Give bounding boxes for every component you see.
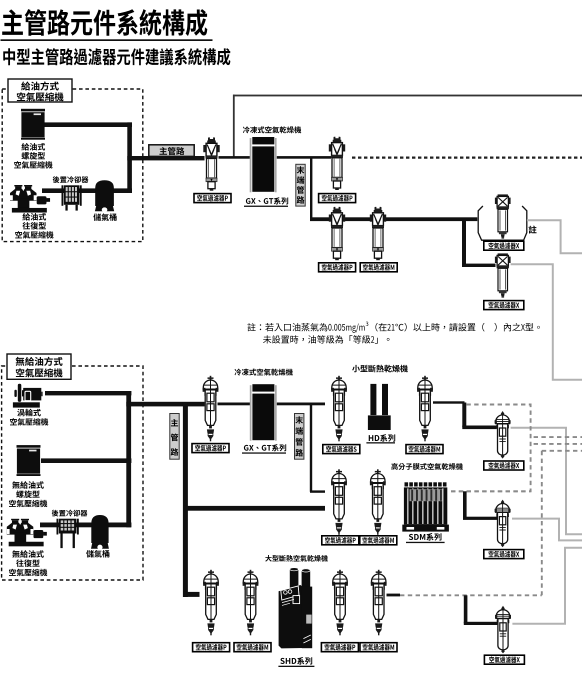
- stub from riser toward row2 filters: [310, 490, 325, 492]
- label 空氣過濾器P (top1): [194, 194, 231, 203]
- gray stub from filter X1 to right edge: [511, 428, 582, 534]
- air filter M row3 left: [243, 570, 259, 636]
- wire: junction vertical (top): [127, 122, 132, 193]
- label 高分子膜式空氣乾燥機: [391, 463, 462, 470]
- label box 給油方式空氣壓縮機: [8, 79, 72, 102]
- label HD系列: [369, 434, 395, 442]
- label box 無給油方式空氣壓縮機: [7, 354, 71, 379]
- riser to terminal line (top): [310, 157, 312, 219]
- air tank 儲氣桶 (bottom): [91, 515, 109, 550]
- air filter M row2 (bottom): [370, 469, 386, 535]
- gray stub from bracket to right edge (top): [527, 220, 582, 253]
- dashed continuation of main line (top): [352, 157, 582, 159]
- label GX、GT系列 (top): [246, 197, 288, 204]
- riser to row2 (bottom): [310, 404, 312, 492]
- wire: dryer to filter P2 (top): [277, 156, 331, 159]
- aftercooler label 後置冷卻器 (top): [53, 176, 89, 183]
- aftercooler (bottom): [57, 519, 79, 548]
- label 空氣過濾器X (top2): [484, 301, 524, 310]
- title underline: [1, 39, 213, 41]
- air filter S (bottom row1): [331, 376, 347, 442]
- label 空氣過濾器M (bottom row1): [406, 445, 443, 454]
- label 空氣過濾器X (bottom1): [484, 461, 524, 470]
- note marker 註: [529, 226, 537, 234]
- aftercooler (top): [62, 185, 82, 210]
- label 空氣過濾器M (bottom row2): [360, 536, 397, 545]
- air filter P row3 right: [332, 570, 348, 636]
- reciprocating compressor 給油式往復型 (top): [10, 185, 50, 213]
- label 空氣過濾器X (top1): [484, 241, 524, 250]
- gray stub from filter X3 up to right edge: [512, 548, 582, 624]
- label 小型斷熱乾燥機: [352, 365, 408, 373]
- aftercooler label 後置冷卻器 (bottom): [52, 510, 88, 517]
- air filter P1 (top main line): [203, 137, 219, 190]
- wire: junction vertical (bottom): [126, 391, 131, 527]
- dashed enclosure: oil-type compressor group: [2, 89, 143, 242]
- bypass line across top: [233, 95, 582, 97]
- label 空氣過濾器X (bottom2): [484, 550, 524, 559]
- terminal branch line (top row B): [310, 217, 477, 221]
- screw compressor 無給油式螺旋型: [17, 445, 41, 476]
- wire: main trunk out (bottom): [126, 402, 204, 407]
- wire: tap down to filter X2 (bottom): [463, 491, 467, 518]
- note text line 1: [247, 323, 364, 333]
- air filter X1 (bottom): [495, 411, 511, 459]
- air filter X2 (bottom): [495, 500, 511, 548]
- air tank 儲氣桶 (top): [95, 180, 114, 212]
- wire: filter P1 to dryer: [219, 156, 252, 159]
- label 空氣過濾器P (top2): [319, 194, 356, 203]
- air filter X1 (top, optional): [495, 194, 511, 238]
- SHD cabinet: [279, 568, 313, 649]
- wire: row3 stub after filter M: [387, 594, 401, 597]
- dashed enclosure: oil-free compressor group: [2, 366, 143, 580]
- dashed stub right 2: [534, 443, 582, 445]
- dashed from SDM to right (row2): [451, 490, 531, 492]
- wire: elbow down to filter X2 (top): [462, 218, 466, 266]
- wire: tap down to filter X3 (bottom): [464, 595, 468, 623]
- row2 trunk (bottom): [183, 506, 325, 511]
- wire: elbow down to filter X1 (bottom): [462, 403, 466, 428]
- wire: filter P to dryer (bottom): [218, 403, 251, 406]
- label 空氣過濾器P (bottom row2): [322, 536, 359, 545]
- wire: recip compressor line (bottom): [40, 523, 131, 528]
- reciprocating compressor 無給油式往復型: [7, 519, 47, 547]
- air filter P3 (top row B): [329, 207, 345, 260]
- label GX、GT系列 (bottom): [244, 444, 286, 451]
- air filter P2 (top main line right): [329, 137, 345, 190]
- dashed link row1-to-row2 (right column): [451, 405, 531, 492]
- dashed stub right 3: [542, 450, 582, 452]
- label 空氣過濾器M (row3 L): [234, 643, 271, 652]
- air filter P row3 left: [203, 570, 219, 636]
- air filter X3 (bottom): [495, 606, 511, 654]
- main title 主管路元件系統構成: [2, 9, 207, 36]
- subtitle 中型主管路過濾器元件建議系統構成: [3, 48, 230, 65]
- refrigerated dryer label 冷凍式空氣乾燥機 (top): [243, 126, 301, 133]
- note text line 2: [263, 335, 389, 343]
- SDM series dryer icon: [402, 482, 449, 531]
- refrigerated air dryer GX/GT (top): [250, 137, 277, 192]
- screw compressor 給油式螺旋型: [21, 109, 45, 140]
- wire: main trunk out of compressor group (top): [127, 156, 204, 160]
- label 空氣過濾器M (top): [360, 263, 397, 272]
- wire: recip compressor line (top): [42, 188, 132, 193]
- label 空氣過濾器M (row3 R): [360, 643, 397, 652]
- air filter P row1 (bottom): [203, 376, 219, 442]
- label 主管路 (bottom, vertical): [170, 414, 179, 460]
- wire: screw compressor to junction (top): [44, 122, 132, 127]
- label 空氣過濾器X (bottom3): [484, 655, 524, 664]
- refrigerated dryer label (bottom): [235, 369, 293, 376]
- label SDM系列: [409, 533, 442, 541]
- refrigerated air dryer GX/GT (bottom): [250, 384, 277, 441]
- row3 elbow (bottom): [183, 592, 200, 597]
- label 空氣過濾器P (bottom row1): [192, 444, 229, 453]
- dashed vertical connector (right): [541, 451, 543, 596]
- air filter P row2 (bottom): [331, 469, 347, 535]
- air filter M1 (top row B): [370, 207, 386, 260]
- bracket around optional filter X (top): [478, 206, 527, 240]
- gray stub from filter X2 to right edge (top): [511, 264, 582, 380]
- HD series dryer icon: [368, 384, 391, 430]
- dashed row3 to right: [400, 594, 542, 596]
- label 大型斷熱空氣乾燥機: [265, 555, 328, 562]
- riser to bypass line (top): [233, 95, 235, 157]
- label 空氣過濾器P (top3): [319, 263, 356, 272]
- air filter M (bottom row1): [417, 376, 433, 442]
- label 空氣過濾器S: [323, 445, 360, 454]
- wire: filter M to elbow (bottom row1): [433, 401, 465, 403]
- gray stub from filter X2 to right edge: [512, 519, 582, 541]
- wire: screw compressor line (bottom): [41, 458, 131, 463]
- air filter M row3 right: [371, 570, 387, 636]
- label 空氣過濾器P (row3 R): [321, 643, 358, 652]
- label 空氣過濾器P (row3 L): [193, 643, 230, 652]
- branch vertical from main line (bottom): [183, 402, 188, 597]
- air filter X2 (top): [495, 253, 511, 297]
- label 末端管路 (bottom): [295, 414, 304, 460]
- label SHD系列: [280, 657, 312, 665]
- wire: turbine compressor line (bottom): [45, 391, 131, 395]
- dashed stub right 1: [534, 436, 582, 438]
- label 主管路 (top): [149, 145, 194, 157]
- wire: dryer to terminal (bottom): [277, 403, 325, 406]
- label 末端管路 (top): [296, 164, 305, 206]
- turbine compressor 渦輪式: [13, 384, 43, 408]
